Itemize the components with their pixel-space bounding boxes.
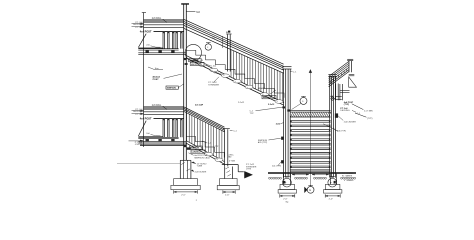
svg-text:A35 (TYP): A35 (TYP) (258, 141, 268, 144)
upper flight treads and risers (steps) (186, 50, 284, 97)
main 4x4 post (full height, left stack) (181, 4, 189, 161)
svg-text:SQ.: SQ. (286, 202, 290, 204)
right section pickets (331, 69, 347, 84)
stair elevation left column (2-2x post) (282, 67, 291, 178)
upper landing left labels P.T. decking (132, 22, 144, 29)
lower flight pickets between rail and stringer (187, 113, 222, 160)
lower landing deck boards and rim (138, 137, 178, 138)
upper flight dimension 4-0 (212, 36, 223, 48)
lower landing joist blocks (146, 139, 175, 142)
elevation top platform hatched band (290, 111, 331, 117)
footing C dimension 2-0 (280, 194, 295, 203)
svg-text:C-1: C-1 (233, 131, 237, 133)
svg-text:SIMPSON: SIMPSON (190, 148, 199, 150)
svg-text:2'-0": 2'-0" (181, 194, 186, 196)
grade elevation solid arrow marker (244, 171, 252, 178)
upper landing support wedge bracket (138, 34, 163, 48)
upper flight railing (rail band) (184, 19, 284, 73)
svg-text:PAD: PAD (228, 156, 233, 159)
center line of elevation with arrow (309, 69, 312, 186)
svg-text:2x4 KICKER: 2x4 KICKER (195, 171, 207, 173)
svg-text:2-2x12: 2-2x12 (216, 73, 223, 75)
upper landing deck boards and rim (138, 49, 178, 50)
upper landing rail label 2x6 RAIL with leader (152, 17, 167, 23)
right section stringer end triangle (349, 77, 357, 87)
upper landing balusters (163, 32, 183, 49)
footing D dimension 2-0 (325, 194, 340, 200)
elevation datum marker circle E with solid wedge (304, 185, 314, 193)
lower-left labels P.T. joist (129, 140, 144, 146)
stair elevation right column (2-2x post) (328, 75, 336, 178)
svg-text:(TYP): (TYP) (246, 169, 252, 171)
svg-text:LUS210-2: LUS210-2 (192, 152, 201, 154)
svg-text:2: 2 (196, 200, 198, 202)
svg-text:1'-6": 1'-6" (225, 195, 230, 197)
svg-text:TYP: TYP (250, 113, 255, 115)
labels near grade arrow (228, 154, 257, 170)
left edge vertical (stair well edge) (142, 13, 146, 148)
upper landing joist blocks (146, 50, 175, 53)
right section small platform lines (335, 91, 350, 100)
svg-text:SIMPSON: SIMPSON (189, 60, 198, 62)
footing B pedestal under stringer (225, 167, 233, 179)
right-of-ground labels (T.O.G.) (342, 172, 354, 182)
leader into tread area (323, 124, 338, 131)
svg-text:2x4 LEDGER: 2x4 LEDGER (344, 122, 357, 124)
detail callout circle at upper landing/post junction (185, 44, 201, 60)
right section shoe/stringer band (329, 70, 349, 87)
svg-text:STRINGER: STRINGER (208, 85, 219, 87)
svg-text:EL: VARIES: EL: VARIES (342, 174, 353, 177)
right section railing (rail band ascending) (329, 61, 349, 82)
svg-text:(TYP): (TYP) (367, 118, 373, 120)
svg-text:L 2x2: L 2x2 (211, 65, 217, 67)
svg-text:TUBE: TUBE (197, 166, 203, 168)
right section top post (347, 59, 353, 72)
lower flight labels (SIMPSON boxes and callouts) (190, 141, 220, 154)
lower flight end post at grade (223, 129, 237, 167)
right section base hatch blob (331, 96, 335, 101)
lower flight treads and risers (steps) (186, 137, 224, 158)
svg-text:2x6: 2x6 (146, 133, 150, 135)
footing D (right column) callout circle + flag (328, 176, 337, 187)
elevation internal dimension arrows at base (292, 174, 329, 176)
lower landing support wedge bracket (138, 121, 163, 137)
upper landing mid rail (144, 25, 184, 28)
svg-text:TYP: TYP (215, 146, 220, 148)
svg-text:2'-0" MIN: 2'-0" MIN (364, 110, 373, 112)
hardware blobs at lower post / stringer connection (183, 145, 190, 150)
svg-text:2x6 CAP: 2x6 CAP (195, 104, 204, 107)
upper flight stringer 2-2x12 (186, 55, 284, 105)
lower landing extra rim band (140, 144, 186, 145)
footing B dimension (223, 190, 235, 196)
right section leaders to 2-0 MIN labels (352, 104, 373, 120)
svg-text:2-2x12: 2-2x12 (268, 104, 275, 106)
lower landing balusters (163, 119, 183, 138)
upper flight annotation labels (194, 59, 223, 87)
footing C base (278, 184, 296, 193)
upper flight intermediate 4x4 post (226, 31, 231, 72)
lower landing post label 4x4 POST (bold) (140, 118, 184, 121)
svg-text:2-2x12: 2-2x12 (259, 88, 266, 90)
svg-text:4x4 POST: 4x4 POST (140, 118, 152, 121)
right section tread nose lines (349, 74, 355, 76)
left side tiny leader arrows lower landing (141, 110, 144, 115)
svg-text:(TYP): (TYP) (344, 104, 350, 106)
svg-text:2x6 (TYP): 2x6 (TYP) (337, 130, 346, 132)
svg-text:C-1: C-1 (208, 143, 212, 145)
grade step outline at lower flight base (222, 165, 244, 172)
svg-text:4x4 POST: 4x4 POST (140, 31, 152, 34)
svg-text:2x6 RAIL: 2x6 RAIL (152, 104, 162, 107)
upper flight SIMPSON boxed labels (189, 59, 204, 66)
lower flight start label (195, 104, 204, 107)
ground line and hatch at elevation base (268, 173, 356, 180)
post cap leader label C-1 (top) (186, 12, 200, 14)
upper landing guardrail top rail 2x6 (144, 19, 184, 22)
upper flight cap label 2x6 CAP (255, 50, 264, 56)
svg-text:2'-0": 2'-0" (329, 198, 334, 200)
svg-text:P.T. 2x4: P.T. 2x4 (135, 114, 143, 116)
lower landing mid rail (144, 112, 184, 115)
right section lower posts (336, 84, 343, 101)
svg-text:C-1: C-1 (293, 71, 297, 73)
svg-text:4" MIN: 4" MIN (229, 160, 236, 162)
lower landing left labels P.T. decking (132, 109, 144, 116)
lower landing rail label 2x6 RAIL with leader (152, 104, 167, 110)
svg-text:6x6: 6x6 (196, 12, 200, 14)
footing C (left column) callout circle + flag (283, 176, 292, 187)
svg-text:SIMPSON: SIMPSON (167, 88, 176, 90)
callout bubble mid elevation (292, 96, 308, 109)
upper flight pickets between rail and stringer (231, 50, 283, 103)
svg-text:E: E (309, 189, 311, 192)
footing D pedestal verticals (330, 174, 336, 185)
svg-text:C: C (207, 47, 209, 49)
elevation bottom frame bands (290, 170, 330, 171)
upper landing post label 4x4 POST (bold) (140, 31, 184, 34)
svg-text:LSCZ (TYP): LSCZ (TYP) (191, 64, 202, 66)
lower flight railing (rail band) (184, 107, 225, 132)
left column label C-1 (290, 71, 297, 73)
upper landing rim joist lines (138, 53, 186, 55)
svg-text:2x12: 2x12 (276, 124, 281, 126)
svg-text:SIMPSON: SIMPSON (263, 97, 272, 99)
footing A base (stepped) (171, 179, 200, 190)
lower landing guardrail top rail 2x6 (144, 106, 184, 109)
footing A pedestal (under main post) (180, 160, 191, 178)
svg-text:2'-0": 2'-0" (283, 198, 288, 200)
svg-text:2x4: 2x4 (200, 60, 204, 62)
svg-text:P.T. 2x4: P.T. 2x4 (135, 27, 143, 29)
left side tiny leader arrows upper landing (141, 23, 144, 28)
svg-text:D: D (302, 101, 304, 103)
lower flight stringer 2-2x12 (186, 141, 224, 165)
left column side hardware + labels (238, 102, 284, 168)
svg-text:2x4 (TYP): 2x4 (TYP) (272, 165, 281, 167)
svg-text:2x6: 2x6 (146, 45, 150, 47)
footing A dimension 2-0 (174, 190, 198, 202)
footing C pedestal verticals (283, 174, 290, 185)
labels below upper landing (Sim / 4x4 POST / SIMPSON box) (148, 67, 184, 90)
upper flight stringer callout ellipses (199, 63, 284, 104)
footing B base (stepped) (217, 179, 239, 190)
lower flight stringer callout ellipses (194, 147, 223, 162)
svg-text:DECKING: DECKING (340, 110, 350, 112)
ground line at left (grade) (117, 163, 180, 165)
svg-text:SIMPSON CB44: SIMPSON CB44 (194, 157, 210, 159)
svg-text:POST: POST (153, 79, 160, 81)
small callout bubble with flag (upper flight) (205, 43, 211, 51)
svg-text:2x6 RAIL: 2x6 RAIL (152, 17, 162, 20)
hardware blobs at upper post / stringer connection (183, 58, 187, 65)
upper flight end labels 2-2x12 / SIMPSON (259, 88, 277, 99)
svg-text:4'-0": 4'-0" (212, 38, 216, 40)
footing A leader labels (189, 153, 211, 174)
lower landing rim joist lines (138, 141, 186, 143)
elevation tread rows (290, 121, 330, 168)
svg-text:JOISTS: JOISTS (135, 144, 143, 146)
right column side labels (333, 101, 361, 133)
left column hardware blobs at platform level (282, 106, 290, 111)
svg-text:4" GRAVEL: 4" GRAVEL (344, 179, 354, 182)
svg-text:2-2x12: 2-2x12 (238, 102, 245, 104)
footing D base (324, 184, 342, 193)
